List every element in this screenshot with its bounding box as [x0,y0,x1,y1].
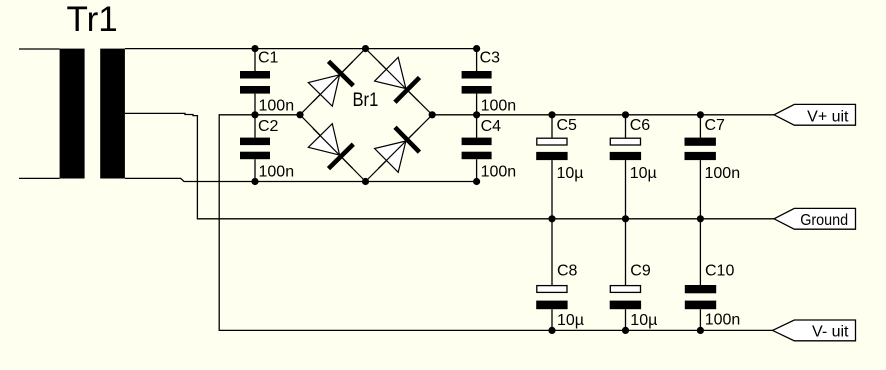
node V- / C8 [548,327,555,334]
wire bottom AC rail [125,178,477,181]
transformer Tr1 [60,0,125,179]
node bottom rail / C2 [251,178,258,185]
capacitor C8 [536,219,584,331]
node C3/C4 junction [473,111,480,118]
node top rail / C3 [473,45,480,52]
node ground / C6-C9 [622,215,629,222]
node bridge right corner [429,111,436,118]
svg-text:C8: C8 [557,263,578,280]
node V- / C10 [697,327,704,334]
svg-text:V+ uit: V+ uit [807,108,849,125]
capacitor C7 [685,115,741,219]
flag V+ uit [774,104,856,125]
wire center tap to ground net [125,113,774,218]
node bottom rail / C4 [473,178,480,185]
diode D4 (bottom to right) [375,127,420,172]
capacitor C4 [462,115,517,182]
wire bridge edge top-right [366,49,433,115]
capacitor C6 [610,115,657,219]
node bottom rail / bridge bottom [362,178,369,185]
svg-text:10µ: 10µ [557,165,584,182]
node V+ / C7 [697,111,704,118]
svg-text:Ground: Ground [800,212,848,229]
svg-text:C5: C5 [557,117,578,134]
svg-text:100n: 100n [481,164,517,181]
wire primary bottom [19,177,60,179]
diode D3 (left to bottom) [308,124,353,169]
wire bridge edge left-bottom [300,115,366,182]
capacitor C10 [685,219,740,331]
svg-text:C4: C4 [481,118,502,135]
svg-text:100n: 100n [481,98,517,115]
capacitor C1 [240,49,294,115]
svg-text:Br1: Br1 [353,89,379,111]
flag V- uit [773,320,856,341]
wire V- net [219,115,772,331]
svg-text:10µ: 10µ [630,312,657,329]
diode D1 (left to top) [308,61,353,106]
bridge Br1 [300,49,432,182]
svg-text:C6: C6 [630,117,651,134]
svg-text:Tr1: Tr1 [67,0,118,39]
node bridge left corner [296,111,303,118]
svg-text:V- uit: V- uit [812,324,849,341]
wire top AC rail [125,48,477,50]
node C1/C2 junction [251,111,258,118]
flag Ground [774,208,856,229]
capacitor C5 [536,115,583,219]
node ground / C7-C10 [697,215,704,222]
svg-text:100n: 100n [259,98,295,115]
svg-text:C7: C7 [705,117,726,134]
node V- / C9 [622,327,629,334]
capacitor C3 [462,49,517,115]
svg-text:10µ: 10µ [630,165,657,182]
node top rail / C1 [251,45,258,52]
capacitor C2 [240,115,294,182]
capacitor C9 [610,219,658,331]
wire bridge edge left-top [300,49,366,115]
svg-text:100n: 100n [705,312,741,329]
svg-text:10µ: 10µ [557,312,584,329]
svg-text:100n: 100n [259,164,295,181]
svg-text:100n: 100n [705,165,741,182]
wire primary top [19,48,60,50]
svg-text:C2: C2 [258,118,279,135]
node V+ / C6 [622,111,629,118]
svg-text:C9: C9 [630,263,651,280]
diode D2 (top to right) [375,57,420,102]
node V+ / C5 [548,111,555,118]
svg-text:C1: C1 [258,50,279,67]
svg-text:C10: C10 [705,263,734,280]
wire V+ rail [432,114,774,116]
svg-text:C3: C3 [480,50,501,67]
node top rail / bridge top [362,45,369,52]
node ground / C5-C8 [548,215,555,222]
wire bridge edge bottom-right [366,115,433,182]
